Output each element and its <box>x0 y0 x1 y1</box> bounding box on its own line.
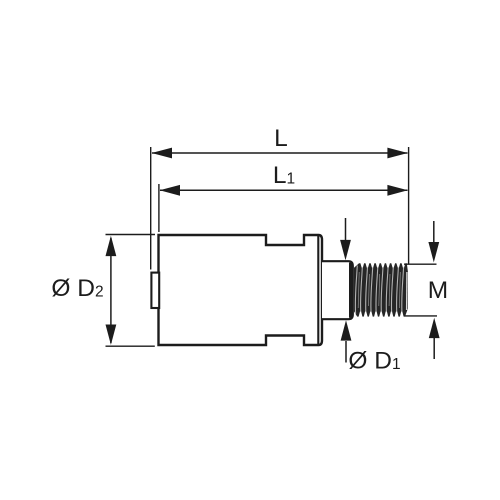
arrowhead L left <box>152 148 172 159</box>
arrowhead L right <box>387 148 407 159</box>
dimension L extension line left <box>150 147 152 270</box>
flange inner edge line <box>317 236 319 344</box>
collar (shank) <box>322 261 353 319</box>
collar right thick edge <box>349 263 352 318</box>
arrowhead D2 down <box>106 325 117 345</box>
arrowhead L1 right <box>387 185 407 196</box>
dimension L/L1 extension line right <box>408 147 410 264</box>
dimension D2 extension line bottom <box>106 345 155 347</box>
dimension line D2 <box>110 238 112 343</box>
dimension L1 extension line left <box>158 184 160 232</box>
left tab <box>151 273 159 308</box>
dimension line L <box>152 152 408 154</box>
thread body <box>354 263 408 316</box>
D1 top arrow leader <box>345 218 347 241</box>
arrowhead D2 up <box>106 236 117 256</box>
svg-text:L: L <box>274 125 288 152</box>
arrowhead D1 up <box>341 320 352 340</box>
arrowhead L1 left <box>160 185 180 196</box>
M extension line top <box>404 263 437 265</box>
body main outline <box>159 235 323 345</box>
thread groove highlights <box>355 266 407 315</box>
arrowhead M down <box>428 242 439 262</box>
arrowhead M up <box>429 318 440 338</box>
dimension line L1 <box>160 189 408 191</box>
M top arrow leader <box>433 221 435 243</box>
M extension line bottom <box>405 315 438 317</box>
M bottom arrow leader <box>433 338 435 359</box>
D1 bottom arrow leader <box>345 341 347 363</box>
svg-text:M: M <box>428 277 448 304</box>
arrowhead D1 down <box>340 240 351 260</box>
dimension D2 extension line top <box>106 234 156 236</box>
